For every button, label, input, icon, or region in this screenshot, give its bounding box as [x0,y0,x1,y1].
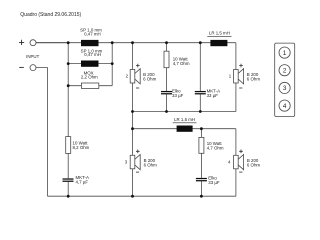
wire left rail upper [67,43,69,137]
wire speaker1 top drop [235,43,237,70]
terminal strip [275,43,295,116]
terminal circle 3 [279,82,290,93]
svg-text:1: 1 [283,50,287,57]
svg-text:Quadro (Stand 29.06.2015): Quadro (Stand 29.06.2015) [20,12,81,18]
speaker 2 [130,69,140,84]
node MOX left [67,84,70,87]
svg-text:2: 2 [283,67,287,74]
wire speaker4 bottom drop [235,169,237,197]
label R2 [207,141,224,151]
label C1 [172,89,184,98]
minus sign input [19,66,24,68]
svg-text:4,7 Ohm: 4,7 Ohm [173,61,190,66]
wire input plus lead [36,42,68,44]
node C2 top [199,41,202,44]
capacitor C4 Elko 33uF [196,178,207,181]
node top-left junction [67,41,70,44]
wire Elko C1 bottom [166,94,168,111]
wire input minus lead [36,68,48,197]
svg-text:4,7 µF: 4,7 µF [76,180,89,185]
wire MOX branch [68,85,112,87]
node L2 left [67,62,70,65]
label speaker1 [229,64,261,88]
terminal circle 4 [279,100,290,111]
node top-right of group [111,41,114,44]
speaker 4 [234,155,244,170]
svg-text:INPUT: INPUT [26,54,39,59]
capacitor C3 MKT-A 4,7uF [63,178,74,181]
plus sign input [19,40,24,68]
inductor L3 LR 1,5mH [210,40,227,46]
label MOX [81,71,98,80]
resistor R1 10W 4,7 Ohm [164,51,169,67]
svg-text:2,2 Ohm: 2,2 Ohm [81,75,98,80]
svg-text:33 µF: 33 µF [172,93,184,98]
node dots [67,41,203,197]
node B speaker3 [131,127,134,130]
svg-text:4: 4 [283,103,287,110]
wire ground rail [48,195,236,197]
svg-text:0,47 mH: 0,47 mH [84,52,101,57]
svg-text:6 Ohm: 6 Ohm [247,163,261,168]
inductor L4 LR 1,5mH [177,126,193,132]
svg-text:LR 1,5 mH: LR 1,5 mH [209,30,230,35]
wire left rail to ground [67,182,69,196]
speaker 3 [130,155,140,170]
label C4 [208,176,220,185]
terminal circle 2 [279,65,290,76]
svg-text:4,7 Ohm: 4,7 Ohm [207,146,224,151]
label R3 [73,140,90,150]
svg-text:33 µF: 33 µF [207,93,219,98]
wire C2 branch bottom [199,94,201,111]
resistor R3 10W 8,2 Ohm [66,137,71,154]
wire right rail of parallel group [111,43,113,86]
svg-text:0,47 mH: 0,47 mH [84,32,101,37]
node ground C3 [67,195,70,198]
wire mid node A horizontal [133,111,236,113]
wire speaker1 bottom drop [235,83,237,112]
label R1 [173,57,190,67]
wire inductor L2 branch [68,63,112,65]
label L3 [207,30,231,36]
resistor MOX 2,2 Ohm [81,83,98,88]
wire speaker4 top drop [235,129,237,156]
svg-text:LR 1,5 mH: LR 1,5 mH [174,117,195,122]
label speaker4 [228,150,260,173]
wire R2 to Elko C4 [200,153,202,178]
wire left rail lower [67,153,69,178]
label C2 [207,89,220,98]
terminal input plus [30,40,36,46]
svg-text:6 Ohm: 6 Ohm [143,77,157,82]
resistor R2 10W 4,7 Ohm [199,137,204,153]
wire R2 branch top [200,129,202,138]
node A speaker2 [131,110,134,113]
inductor L2 SP 1,0mm 0,47mH [81,61,99,67]
speaker 1 [234,69,244,84]
wire speaker2 to speaker3 [132,83,134,155]
svg-text:8,2 Ohm: 8,2 Ohm [73,145,90,150]
capacitor C2 MKT-A 33uF [195,91,206,94]
label C3 [76,175,89,184]
svg-text:6 Ohm: 6 Ohm [144,163,158,168]
node B R2 [200,127,203,130]
svg-text:6 Ohm: 6 Ohm [247,77,261,82]
wire top rail [36,42,236,44]
label speaker2 [126,64,157,88]
node ground C4 [200,195,203,198]
capacitor C1 Elko 33uF [161,91,172,94]
wire R1 branch top [166,43,168,52]
label L2 [81,49,103,58]
node ground speaker3 [131,195,134,198]
terminal numbers [283,50,287,110]
wire C2 branch top [199,43,201,91]
inductor L1 SP 1,0mm 0,47mH [81,40,99,46]
wire speaker2 branch top [132,43,134,70]
wire mid node B horizontal [133,128,236,130]
svg-text:3: 3 [283,85,287,92]
node R1 top [165,41,168,44]
label L4 [173,117,197,123]
label L1 [80,28,102,37]
svg-text:33 µF: 33 µF [208,180,220,185]
label speaker3 [125,150,157,173]
wire Elko C4 bottom [200,181,202,196]
terminal circle 1 [279,47,290,58]
node A C2 [199,110,202,113]
node L2 right [111,62,114,65]
wire speaker3 bottom [132,169,134,197]
terminal input minus [30,65,36,71]
node speaker2 top [131,41,134,44]
node A C1 [165,110,168,113]
wire R1 to Elko C1 [166,68,168,91]
